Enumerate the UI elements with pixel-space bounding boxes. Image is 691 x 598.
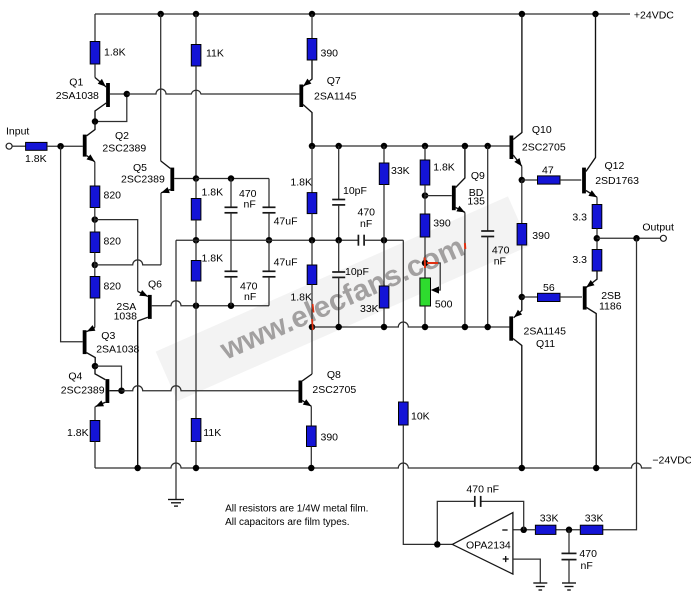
- svg-text:1.8K: 1.8K: [104, 47, 126, 59]
- node x312 y327: [309, 324, 316, 331]
- node Q1 collector: [92, 118, 99, 125]
- resistor 390 (x425): [420, 214, 430, 237]
- svg-text:47: 47: [542, 165, 554, 177]
- node y146 x312: [309, 143, 316, 150]
- svg-text:1.8K: 1.8K: [202, 187, 224, 199]
- svg-text:820: 820: [104, 190, 122, 202]
- node y146 x384: [381, 143, 388, 150]
- node top rail x312: [309, 11, 316, 18]
- resistor 1.8K (x312 lower): [307, 265, 317, 285]
- svg-text:2SA1145: 2SA1145: [314, 91, 357, 103]
- node Q6 base x231: [228, 302, 235, 309]
- node output branch: [633, 235, 640, 242]
- transistor Q7 2SA1145: [301, 60, 312, 146]
- svg-text:Output: Output: [642, 222, 674, 234]
- capacitor 470nF (x231 upper): [225, 179, 238, 272]
- capacitor 10pF (lower): [332, 240, 345, 327]
- svg-text:Q4: Q4: [68, 371, 82, 383]
- resistor 390 (top): [307, 39, 317, 61]
- svg-text:33K: 33K: [360, 303, 379, 315]
- node y327 x384: [381, 324, 388, 331]
- resistor 1.8K (input, horizontal): [26, 142, 47, 150]
- output terminal: [660, 235, 666, 241]
- svg-text:nF: nF: [494, 256, 506, 268]
- svg-text:10pF: 10pF: [343, 185, 367, 197]
- wire y146 to 33K: [383, 146, 385, 163]
- wire 1.8K to y327 node: [311, 285, 313, 328]
- svg-text:10pF: 10pF: [345, 266, 369, 278]
- node Q9 base: [422, 192, 429, 199]
- wire pot wiper loop: [425, 263, 440, 290]
- wire Q10 emitter to node: [521, 166, 523, 180]
- node top rail x522: [519, 11, 526, 18]
- resistor 1.8K (x196 upper): [191, 199, 201, 221]
- svg-text:+24VDC: +24VDC: [634, 10, 674, 22]
- svg-text:500: 500: [435, 299, 453, 311]
- wire node to 1.8K: [195, 179, 197, 199]
- wire 820 to Q3 emitter: [94, 298, 96, 328]
- wire Q5 emitter vertical: [160, 193, 162, 265]
- svg-text:1.8K: 1.8K: [290, 292, 312, 304]
- potentiometer 500: [420, 278, 431, 306]
- svg-text:nF: nF: [581, 560, 593, 572]
- wire Q2 emitter down: [94, 162, 96, 186]
- wire Q6 base (hops x176): [152, 301, 269, 306]
- svg-text:470 nF: 470 nF: [466, 484, 499, 496]
- svg-text:135: 135: [467, 196, 485, 208]
- node cap 470nF top: [228, 175, 235, 182]
- wire input to R: [12, 145, 26, 147]
- node y146 x465: [462, 143, 469, 150]
- node 33K junction: [566, 527, 573, 534]
- wire pot to y327: [424, 306, 426, 327]
- wire x312 node to 1.8K: [311, 146, 313, 193]
- svg-text:2SA1038: 2SA1038: [56, 90, 99, 102]
- node 820 junction 1: [92, 216, 99, 223]
- resistor 820 (second): [90, 232, 100, 253]
- wire 11K to bottom rail: [195, 442, 197, 469]
- node Q6 base x196: [193, 302, 200, 309]
- wire center rail to 1.8K lower: [195, 240, 197, 260]
- watermark red accents: [312, 243, 465, 330]
- transistor Q2 2SC2389: [85, 122, 95, 162]
- transistor Q5 2SC2389: [161, 161, 196, 193]
- svg-text:820: 820: [104, 281, 122, 293]
- wire x522 down to 390: [521, 180, 523, 224]
- svg-text:820: 820: [104, 236, 122, 248]
- svg-text:nF: nF: [244, 199, 256, 211]
- resistor 1.8K (x425): [420, 160, 430, 185]
- transistor Q8 2SC2705: [300, 374, 312, 406]
- svg-text:2SA1038: 2SA1038: [96, 344, 139, 356]
- resistor 11K (bottom): [191, 419, 201, 442]
- resistor 33K (feedback right): [580, 525, 603, 534]
- wire center rail corner down to 10K and op-amp: [402, 240, 404, 402]
- capacitor 470nF (to ground at 33K junction): [562, 530, 577, 583]
- node Q5 base: [193, 175, 200, 182]
- svg-text:390: 390: [532, 230, 550, 242]
- svg-text:390: 390: [321, 48, 339, 60]
- wire rail to 390: [311, 14, 313, 39]
- ground (33K junction cap): [562, 583, 576, 590]
- node rail x522: [519, 465, 526, 472]
- wire rail to 11K: [195, 14, 197, 45]
- wire y327 to Q11 base (hops x403): [312, 322, 509, 327]
- capacitor 10pF (upper): [332, 146, 345, 240]
- wire op-amp noninverting input to ground: [513, 559, 540, 583]
- resistor 3.3 (upper): [592, 205, 602, 229]
- svg-text:1.8K: 1.8K: [202, 253, 224, 265]
- svg-text:Input: Input: [6, 126, 29, 138]
- wire Q1 base to Q7 base (hops x161,x196): [127, 89, 300, 94]
- svg-text:47uF: 47uF: [274, 257, 298, 269]
- wire Q9 emitter down: [464, 212, 466, 327]
- wire ground column: [175, 240, 177, 499]
- svg-text:1.8K: 1.8K: [290, 177, 312, 189]
- svg-text:Q6: Q6: [148, 279, 162, 291]
- node 820 junction 2: [92, 262, 99, 269]
- watermark text www.elecfans.com: [215, 230, 470, 367]
- wire 1.8K to center rail: [195, 220, 197, 240]
- wire 820 junction2 to Q5 emitter (hops x137.7): [95, 260, 161, 265]
- node y327 x488: [484, 324, 491, 331]
- wire 1.8K to node: [424, 185, 426, 214]
- svg-text:33K: 33K: [585, 513, 604, 525]
- capacitor 47uF (x269 upper): [263, 179, 276, 241]
- wire output: [597, 237, 661, 239]
- wire 1.8K to center rail: [311, 214, 313, 241]
- input terminal: [6, 143, 12, 149]
- node y327 x425: [422, 324, 429, 331]
- wire Q4 base to Q8 base (hops x137.7,x176): [122, 386, 299, 391]
- svg-text:47uF: 47uF: [274, 216, 298, 228]
- svg-text:nF: nF: [360, 218, 372, 230]
- svg-text:11K: 11K: [206, 48, 224, 60]
- node top rail x161: [157, 11, 164, 18]
- node y146 x425: [422, 143, 429, 150]
- svg-text:2SA1145: 2SA1145: [524, 326, 567, 338]
- node top rail x595: [592, 11, 599, 18]
- wire +24VDC top rail: [95, 13, 630, 15]
- wire rail to R1: [94, 14, 96, 42]
- svg-text:2SC2389: 2SC2389: [102, 143, 146, 155]
- node Q1 base tie: [124, 91, 131, 98]
- node y327 x465: [462, 324, 469, 331]
- node rail x311: [308, 465, 315, 472]
- svg-text:56: 56: [543, 282, 555, 294]
- wire node to 47: [522, 179, 538, 181]
- wire rail to 1.8K x425: [424, 146, 426, 160]
- svg-text:390: 390: [433, 218, 451, 230]
- transistor Q3 2SA1038: [85, 325, 96, 366]
- resistor 3.3 (lower): [592, 250, 602, 272]
- transistor Q12 2SD1763: [584, 14, 597, 197]
- resistor 33K (feedback left): [535, 525, 556, 534]
- wire 33K to op-amp inverting input: [513, 529, 536, 531]
- resistor 11K (top): [191, 45, 201, 67]
- wire 1.8K to y306 wire and down to 11K bottom: [195, 281, 197, 419]
- resistor 820 (third): [90, 277, 100, 299]
- svg-text:1.8K: 1.8K: [67, 427, 89, 439]
- svg-text:2SC2705: 2SC2705: [312, 384, 356, 396]
- node Q3/Q4 collectors: [92, 363, 99, 370]
- resistor 1.8K (bottom left): [90, 421, 100, 442]
- svg-text:1.8K: 1.8K: [25, 153, 47, 165]
- transistor Q11 2SA1145: [511, 297, 522, 468]
- node x522 y297: [519, 294, 526, 301]
- resistor 47 (horizontal): [538, 176, 561, 184]
- svg-text:Q10: Q10: [532, 124, 552, 136]
- wire between 820s lower: [94, 253, 96, 277]
- wire mid rail y146 to Q10 base: [312, 145, 510, 147]
- wire R to bottom rail: [94, 442, 96, 469]
- svg-text:1038: 1038: [114, 311, 138, 323]
- wire Q12 emitter to 3.3: [596, 197, 598, 204]
- svg-text:Q7: Q7: [327, 75, 341, 87]
- wire between 820s: [94, 208, 96, 233]
- wire 3.3 to output node: [596, 229, 598, 250]
- wire input node down to Q3 base: [61, 146, 83, 342]
- svg-text:2SC2389: 2SC2389: [61, 385, 105, 397]
- node y146 x488: [484, 143, 491, 150]
- wire Q4 emitter to R: [94, 407, 96, 421]
- node y327 x338.7: [335, 324, 342, 331]
- node 47uF center rail: [266, 237, 273, 244]
- node x196 center rail: [193, 237, 200, 244]
- resistor 56 (horizontal): [538, 293, 561, 301]
- node x312 center rail: [309, 237, 316, 244]
- wire node to 56: [522, 296, 538, 298]
- watermark background band: [156, 196, 530, 401]
- svg-text:nF: nF: [244, 291, 256, 303]
- transistor Q6 2SA1038: [138, 290, 150, 468]
- wire 820 junction1 to Q6 emitter column: [95, 220, 138, 292]
- wire 11K down to Q5 base node: [195, 66, 197, 179]
- node input: [57, 143, 64, 150]
- capacitor 470nF (x488): [481, 146, 494, 327]
- node rail x137.7: [134, 465, 141, 472]
- svg-text:1.8K: 1.8K: [433, 162, 455, 174]
- svg-text:Q1: Q1: [69, 77, 83, 89]
- wire center rail to 33K lower: [383, 240, 385, 286]
- node rail x196: [193, 465, 200, 472]
- resistor 33K (lower): [379, 286, 389, 308]
- svg-text:Q11: Q11: [536, 338, 555, 350]
- wire 33K to center rail: [383, 185, 385, 241]
- node x384 center rail: [381, 237, 388, 244]
- svg-text:Q12: Q12: [605, 160, 625, 172]
- transistor Q13 2SB1186: [585, 271, 597, 468]
- wire 390 to 56 node: [521, 245, 523, 297]
- resistor 33K (upper): [379, 163, 389, 185]
- svg-text:Q8: Q8: [327, 369, 341, 381]
- svg-text:2SC2389: 2SC2389: [121, 174, 165, 186]
- wire 33K to y327: [383, 308, 385, 327]
- wire center rail to 1.8K lower: [311, 240, 313, 265]
- wire 390 to bottom rail: [310, 447, 312, 469]
- wire y178 Q5 base to caps: [196, 178, 269, 180]
- wire 10K down to op-amp output: [403, 425, 452, 544]
- wire R to Q2 base: [47, 145, 83, 147]
- resistor 10K: [399, 402, 409, 425]
- capacitor 470nF (op-amp feedback, horizontal): [437, 496, 523, 545]
- svg-text:−24VDC: −24VDC: [652, 455, 691, 467]
- wire 56 to 2SB1186 base: [560, 296, 582, 298]
- node Q4 base: [118, 387, 125, 394]
- svg-text:470: 470: [358, 207, 376, 219]
- wire Q8 emitter to 390: [310, 406, 312, 426]
- node rail x596: [593, 465, 600, 472]
- svg-text:Q2: Q2: [115, 130, 129, 142]
- svg-text:All capacitors are film types.: All capacitors are film types.: [225, 517, 350, 528]
- node output: [594, 235, 601, 242]
- transistor Q9 BD135: [454, 146, 465, 212]
- wire center rail (ground net): [176, 239, 358, 241]
- op-amp U1 OPA2134: [452, 513, 513, 575]
- resistor 1.8K (x196 lower): [191, 261, 201, 282]
- svg-text:390: 390: [321, 432, 339, 444]
- node y146 x338.7: [335, 143, 342, 150]
- svg-text:470: 470: [579, 548, 597, 560]
- resistor 1.8K (x312 upper): [307, 193, 317, 214]
- node op-amp output: [434, 541, 441, 548]
- wire 390 to pot node: [424, 237, 426, 280]
- svg-text:33K: 33K: [540, 513, 559, 525]
- svg-text:2SD1763: 2SD1763: [595, 175, 639, 187]
- wire Q9 base: [425, 195, 452, 197]
- capacitor 47uF (x269 lower): [263, 240, 276, 306]
- svg-text:1186: 1186: [599, 301, 622, 313]
- node op-amp inverting input: [520, 527, 527, 534]
- wire 33K to 33K: [556, 529, 580, 531]
- node x522 y180: [519, 177, 526, 184]
- resistor 820 (first): [90, 186, 100, 208]
- node top rail x196: [193, 11, 200, 18]
- capacitor 470nF (x231 lower): [225, 271, 238, 305]
- svg-text:2SC2705: 2SC2705: [522, 142, 566, 154]
- transistor Q10 2SC2705: [511, 14, 522, 166]
- svg-text:3.3: 3.3: [572, 254, 587, 266]
- wire Q4 base-collector tie: [95, 366, 122, 391]
- svg-text:OPA2134: OPA2134: [466, 540, 511, 552]
- svg-text:Q3: Q3: [101, 330, 115, 342]
- wire top rail to Q5 collector: [160, 14, 162, 161]
- svg-text:11K: 11K: [203, 427, 221, 439]
- wire output feedback down (rail hops over): [603, 238, 637, 530]
- ground (op-amp + input): [533, 583, 547, 590]
- svg-text:3.3: 3.3: [572, 212, 587, 224]
- svg-text:Q5: Q5: [133, 162, 147, 174]
- svg-text:33K: 33K: [391, 165, 410, 177]
- pot wiper arrow: [431, 286, 439, 293]
- resistor 390 (Q8 emitter): [307, 426, 317, 447]
- svg-text:Q9: Q9: [471, 170, 485, 182]
- wire 47 to Q12 base: [560, 179, 581, 181]
- resistor 390 (x522): [517, 224, 527, 246]
- transistor Q1 2SA1038: [95, 78, 127, 122]
- capacitor 470nF (series, center rail): [358, 235, 403, 246]
- node 10pF center rail: [335, 237, 342, 244]
- transistor Q4 2SC2389: [95, 366, 122, 407]
- wire R1 to Q1 emitter: [94, 64, 96, 78]
- wire x312 down to Q8 collector: [311, 327, 313, 374]
- ground symbol: [168, 500, 184, 507]
- svg-text:10K: 10K: [411, 411, 430, 423]
- node pot top: [422, 260, 429, 267]
- resistor 1.8K (top left): [90, 42, 100, 65]
- svg-text:All resistors are 1/4W metal f: All resistors are 1/4W metal film.: [225, 504, 368, 515]
- wire bottom rail -24VDC (hops x176,x403,x636): [95, 463, 652, 468]
